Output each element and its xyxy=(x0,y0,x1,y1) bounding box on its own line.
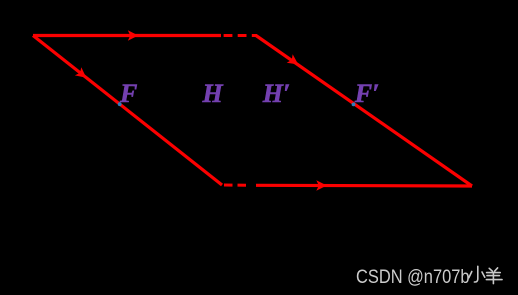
svg-text:H′: H′ xyxy=(262,79,291,108)
svg-text:H: H xyxy=(202,79,224,108)
ray: left slant A to C through F xyxy=(33,36,222,186)
ray arrow on top segment xyxy=(128,30,139,40)
ray: bottom solid segment to D xyxy=(256,184,472,188)
watermark 小 glyph xyxy=(469,266,485,282)
svg-text:CSDN @n707b: CSDN @n707b xyxy=(356,266,470,288)
ray arrow on left slant xyxy=(75,67,90,82)
ray arrow on bottom segment xyxy=(316,180,327,190)
svg-text:F′: F′ xyxy=(354,79,380,108)
ray: top dashed segment H to H' xyxy=(224,34,257,37)
ray arrow on right slant xyxy=(287,54,302,69)
ray: right slant B to D through F' xyxy=(256,36,472,187)
watermark 羊 glyph xyxy=(486,268,502,284)
focal point F' dot xyxy=(352,103,356,107)
svg-text:F: F xyxy=(119,79,137,108)
focal point F dot xyxy=(118,102,122,106)
ray: top solid segment A to H xyxy=(33,34,221,37)
ray: bottom dashed segment C to H' xyxy=(224,184,247,187)
